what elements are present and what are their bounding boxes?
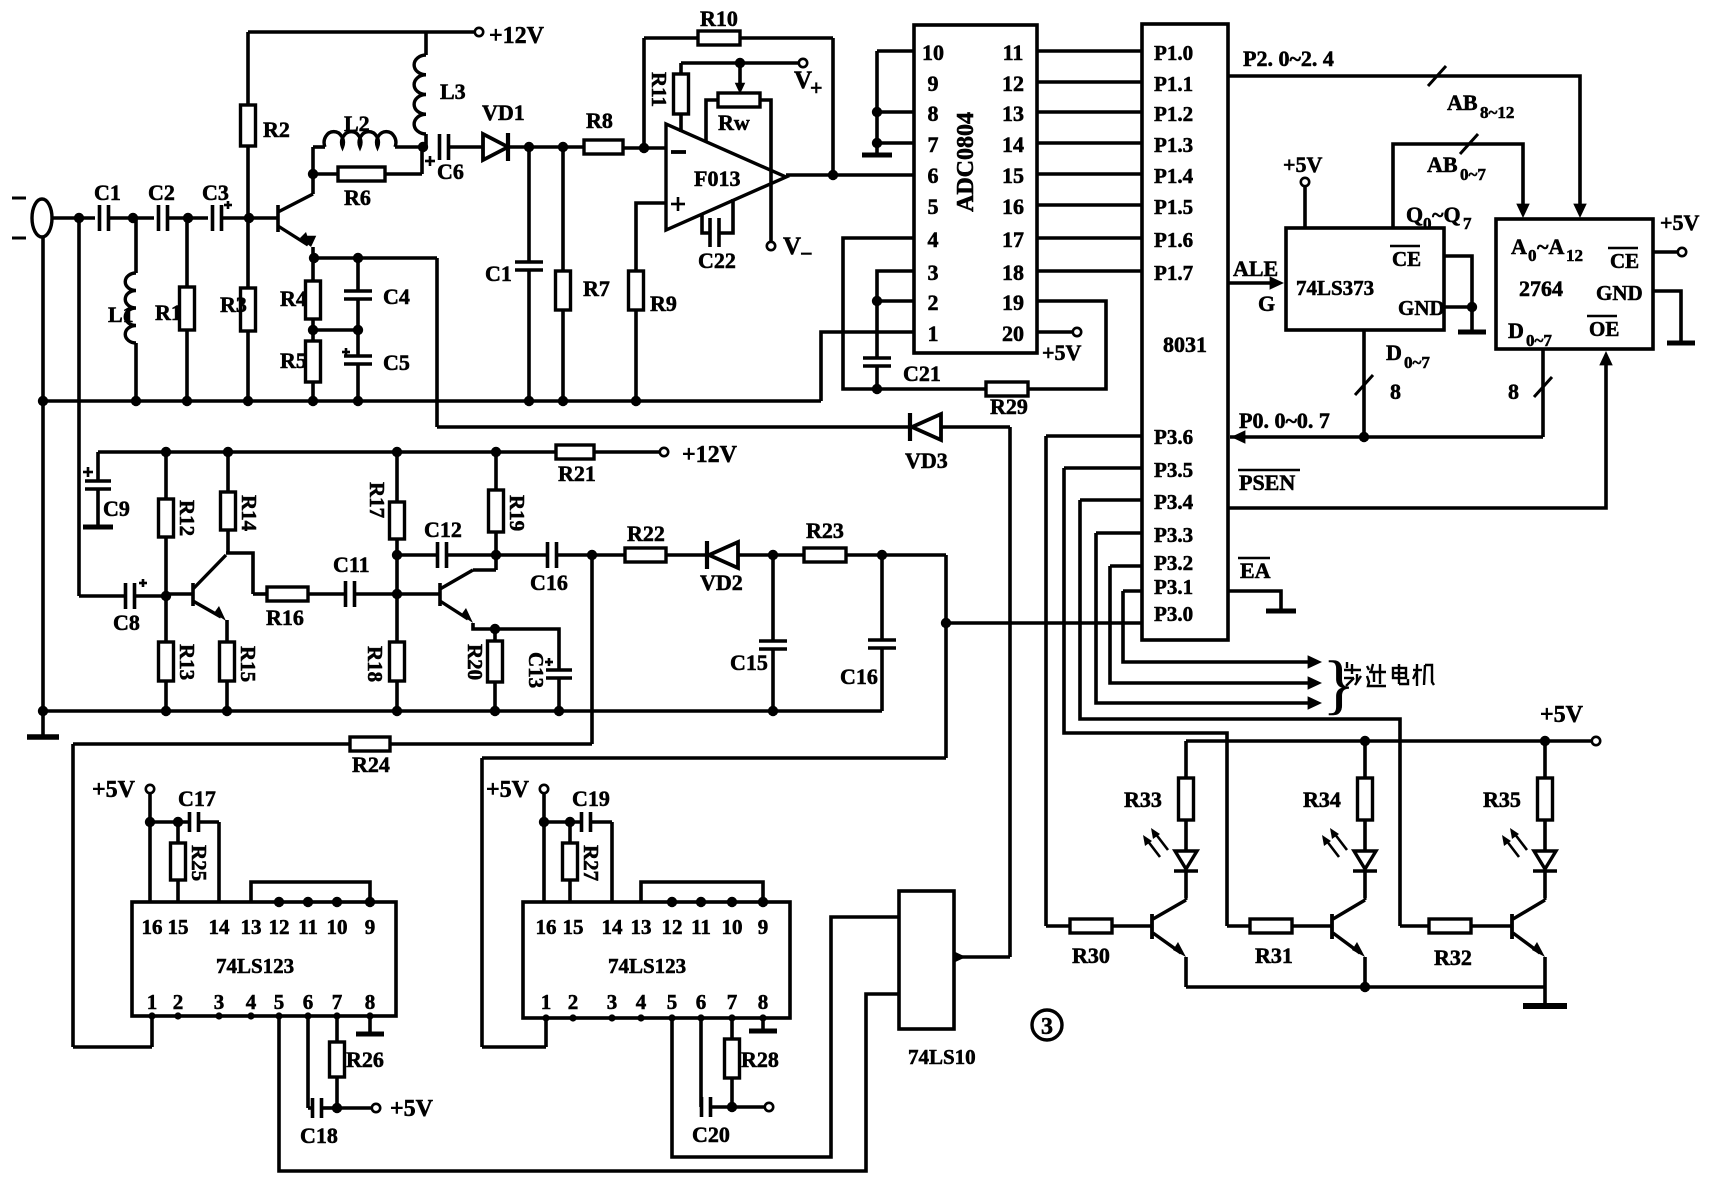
wire P3.2 stub [1110,564,1142,568]
resistor R14 [226,452,230,492]
svg-text:G: G [1258,291,1275,316]
wire P3.4 stub [1080,498,1142,502]
wire PSEN [1228,357,1606,508]
capacitor C8 [79,594,125,598]
svg-text:2: 2 [928,290,939,315]
wire P3.3 to stepper [1096,533,1308,703]
svg-text:R8: R8 [586,108,613,133]
svg-text:R6: R6 [344,185,371,210]
wire VD3 row [437,425,910,429]
capacitor C16a [496,553,547,557]
wire ADC to 8031 P1.7 [1037,269,1142,273]
capacitor C4 [356,258,360,291]
wire 373 D0-7 down [1362,330,1366,437]
slash AB0-7 [1460,134,1478,154]
potentiometer Rw wiper [738,63,742,86]
wire Rw left lead [706,100,718,141]
resistor R23 [804,548,846,562]
IC ADC0804 box [914,25,1037,353]
ground left [41,236,45,736]
capacitor C5 [356,330,360,356]
svg-text:14: 14 [209,915,231,939]
resistor R33 and LED1 [1184,741,1188,778]
wire emitter2 [473,623,495,629]
capacitor C18 [306,1016,310,1108]
123b top bracket [641,882,763,902]
node C21 bottom [872,384,882,394]
node L2/R6 left [308,169,318,179]
svg-text:R7: R7 [583,276,610,301]
svg-text:1: 1 [928,321,939,346]
wire antenna to C1 [52,216,95,220]
svg-text:AB: AB [1427,152,1458,177]
transistor Q6 [1510,914,1514,939]
svg-text:R23: R23 [806,518,844,543]
node R22 left [587,550,597,560]
wire feedback right [831,38,835,175]
svg-text:18: 18 [1002,260,1024,285]
svg-text:OE: OE [1589,317,1619,341]
svg-text:0~7: 0~7 [1404,353,1430,372]
potentiometer Rw [718,93,760,107]
svg-text:P1.1: P1.1 [1154,72,1193,96]
IC 74LS373 box [1286,228,1444,330]
svg-text:C1: C1 [485,261,512,286]
terminal V+ [799,59,807,67]
svg-text:74LS123: 74LS123 [216,954,294,978]
wire C16a to R24 [590,555,594,744]
svg-text:C12: C12 [424,517,462,542]
svg-text:8: 8 [1508,379,1519,404]
ground ADC [862,153,892,158]
diode VD1 [483,134,508,160]
svg-text:L3: L3 [440,79,466,104]
wire P2 bus [1228,76,1580,210]
svg-text:10: 10 [327,915,348,939]
capacitor C15 [771,555,775,641]
svg-text:11: 11 [691,915,711,939]
wire P0 bus [1230,435,1543,439]
wire AB0-7 loop [1393,144,1523,228]
123a top bracket [251,882,370,902]
svg-text:15: 15 [563,915,584,939]
svg-text:C13: C13 [524,652,548,688]
svg-text:R24: R24 [352,752,390,777]
svg-text:7: 7 [1463,214,1472,233]
svg-text:7: 7 [332,990,343,1014]
svg-text:16: 16 [536,915,557,939]
antenna input [32,199,52,237]
wire C2-C3 [168,216,208,220]
svg-text:PSEN: PSEN [1239,470,1295,495]
svg-text:EA: EA [1240,558,1271,583]
wire 123a pin5 to 74LS10 [279,994,899,1171]
svg-text:GND: GND [1596,281,1643,305]
svg-text:4: 4 [246,990,257,1014]
slash D0-7 [1355,375,1373,395]
svg-text:+5V: +5V [486,777,530,803]
123b pin1 loop [482,1045,546,1049]
svg-text:74LS373: 74LS373 [1296,276,1374,300]
node C8 right [161,591,171,601]
wire antenna tap down [77,218,81,596]
svg-text:+5V: +5V [92,777,136,803]
svg-text:R5: R5 [280,348,307,373]
resistor R28 [730,1018,734,1039]
svg-text:5: 5 [928,194,939,219]
resistor R27 [568,822,572,843]
diode VD2 [666,553,707,557]
capacitor C3 [211,205,215,231]
svg-text:4: 4 [928,227,939,252]
IC 74LS123 #2 box [523,902,790,1018]
wire P3.4 path [1080,500,1400,926]
svg-text:P3.0: P3.0 [1154,602,1193,626]
svg-text:~A: ~A [1537,234,1564,259]
svg-text:Q: Q [1406,202,1423,227]
svg-text:C18: C18 [300,1123,338,1148]
svg-text:ADC0804: ADC0804 [953,112,979,212]
resistor R11 [679,63,683,74]
svg-text:12: 12 [1002,71,1024,96]
wire R23 right [846,553,946,557]
resistor R4 [311,258,315,281]
svg-text:6: 6 [303,990,314,1014]
wire R24 left loop [73,742,350,746]
wire 2764 D line [1541,349,1545,437]
svg-text:L1: L1 [108,302,134,327]
svg-text:9: 9 [365,915,376,939]
resistor R30 [1046,924,1070,928]
wire VD1 to R8 [508,145,584,149]
resistor R21 [556,445,594,459]
svg-text:+5V: +5V [1042,340,1082,365]
svg-text:+5V: +5V [390,1096,434,1122]
svg-text:D: D [1386,340,1402,365]
svg-text:VD1: VD1 [482,100,525,125]
svg-text:3: 3 [1041,1014,1053,1040]
resistor R20 [493,629,497,641]
svg-text:+5V: +5V [1283,152,1323,177]
svg-text:74LS123: 74LS123 [608,954,686,978]
wire R21 to +12V [594,450,660,454]
wire C6-VD1 [449,145,483,149]
svg-text:C6: C6 [437,159,464,184]
wire 373 GND right [1444,305,1472,309]
resistor R9 [629,271,644,310]
terminal C20 right [732,1105,765,1109]
resistor R24 [350,737,390,751]
resistor R19 [494,452,498,490]
svg-text:14: 14 [602,915,624,939]
terminal +5V 123a [146,785,154,793]
svg-text:R29: R29 [990,394,1028,419]
svg-text:~Q: ~Q [1432,202,1461,227]
svg-text:15: 15 [1002,163,1024,188]
wire ADC pin4 [843,238,914,389]
svg-text:C5: C5 [383,350,410,375]
node C18 R26 [332,1103,342,1113]
123a bottom edge dots [148,1012,155,1019]
wire 2764 CE +5V [1653,250,1678,254]
resistor R6 [313,172,338,176]
svg-text:+12V: +12V [489,23,545,49]
svg-text:0: 0 [1528,246,1537,265]
svg-text:P1.2: P1.2 [1154,102,1193,126]
svg-text:3: 3 [607,990,618,1014]
svg-text:R28: R28 [741,1047,779,1072]
node C12 row [392,550,402,560]
wire Q2 collector jog [226,553,253,594]
transistor Q1 [276,205,280,232]
svg-text:13: 13 [631,915,652,939]
svg-text:C2: C2 [148,180,175,205]
transistor Q2 [191,583,195,606]
transistor Q4 [1150,914,1154,939]
resistor R17 [395,452,399,502]
svg-text:P1.6: P1.6 [1154,228,1193,252]
wire signal to P3.0 drop [944,555,948,758]
svg-text:CE: CE [1392,247,1421,271]
svg-text:P1.4: P1.4 [1154,164,1194,188]
resistor R22 [592,553,625,557]
svg-text:C1: C1 [94,180,121,205]
svg-text:}: } [1323,648,1355,721]
wire EA ground [1228,591,1281,609]
capacitor C2 [157,205,161,231]
svg-text:+5V: +5V [1660,210,1700,235]
svg-text:R14: R14 [237,495,261,532]
wire +12V top rail [248,30,476,34]
capacitor C16b [880,555,884,640]
wire R8 to opamp [623,146,666,150]
wire 2764 GND gnd [1653,291,1681,341]
wire P3.3 stub [1096,531,1142,535]
wire ADC to 8031 P1.3 [1037,141,1142,145]
resistor R8 [584,140,623,154]
svg-text:V: V [783,233,801,260]
resistor R10 [644,36,698,40]
svg-text:11: 11 [298,915,318,939]
svg-text:C19: C19 [572,786,610,811]
svg-text:C22: C22 [698,248,736,273]
circled 3 [1032,1010,1062,1040]
svg-text:P1.3: P1.3 [1154,133,1193,157]
svg-text:74LS10: 74LS10 [908,1045,976,1069]
wire base1 [166,592,193,596]
svg-text:R30: R30 [1072,943,1110,968]
svg-text:R9: R9 [650,291,677,316]
wire 123b pin5 to 74LS10 [672,917,899,1157]
wire C1-C2 [109,216,154,220]
svg-text:R27: R27 [579,845,603,881]
svg-text:+12V: +12V [682,442,738,468]
node C16a row [491,550,501,560]
svg-text:3: 3 [928,260,939,285]
wire emitter drop [435,258,439,427]
svg-text:AB: AB [1447,90,1478,115]
svg-text:P3.1: P3.1 [1154,575,1193,599]
resistor R15 [225,620,229,642]
svg-text:P3.5: P3.5 [1154,458,1193,482]
svg-text:5: 5 [274,990,285,1014]
svg-text:7: 7 [727,990,738,1014]
wire Q5 emitter [1363,957,1367,987]
resistor R5 [306,341,321,382]
svg-text:C16: C16 [530,570,568,595]
svg-text:R20: R20 [463,644,487,680]
wire ground bus 2 [43,709,882,713]
svg-text:6: 6 [928,163,939,188]
terminal +5V 123b [540,785,548,793]
svg-text:R3: R3 [220,292,247,317]
resistor R7 [561,147,565,271]
74LS10 output [955,952,966,963]
terminal +5V 373 [1301,178,1309,186]
svg-text:2: 2 [568,990,579,1014]
wire opamp + input [636,203,666,271]
svg-text:P1.0: P1.0 [1154,41,1193,65]
svg-text:19: 19 [1002,290,1024,315]
terminal V- [767,242,775,250]
wire R11 top row [681,61,800,65]
terminal +12V mid [660,448,668,456]
svg-text:13: 13 [1002,101,1024,126]
wire VD3 to 74LS10 output [1008,427,1012,957]
op-amp U1 F013 [666,124,786,230]
wire feedback left [642,38,646,148]
transistor Q3 [438,583,442,606]
wire base2 to Q3 [397,592,440,596]
svg-text:16: 16 [1002,194,1024,219]
svg-text:17: 17 [1002,227,1024,252]
svg-text:P2. 0~2. 4: P2. 0~2. 4 [1243,46,1334,71]
svg-text:7: 7 [928,132,939,157]
wire C3 to Q1 base [222,216,278,220]
svg-text:12: 12 [1566,246,1583,265]
wire opamp output [786,173,914,177]
svg-text:5: 5 [667,990,678,1014]
svg-text:F013: F013 [694,166,740,191]
svg-text:CE: CE [1610,249,1639,273]
svg-text:+5V: +5V [1540,702,1584,728]
svg-text:C15: C15 [730,650,768,675]
svg-text:P3.2: P3.2 [1154,551,1193,575]
svg-text:10: 10 [722,915,743,939]
wire ADC pin3 pin2 [877,271,914,358]
wire 373 CE right [1444,256,1472,330]
capacitor C1 [98,205,102,231]
svg-text:P3.3: P3.3 [1154,523,1193,547]
svg-text:R22: R22 [627,521,665,546]
wire emitter rail [1186,985,1545,989]
svg-text:Rw: Rw [718,110,750,135]
capacitor C6 [438,134,442,160]
123b bottom edge dots [542,1014,549,1021]
svg-text:R34: R34 [1303,787,1341,812]
svg-text:VD2: VD2 [700,570,743,595]
wire P3.0 long [946,621,1142,625]
svg-text:+: + [810,75,823,100]
terminal +5V C18 [337,1106,372,1110]
wire R4-C5 row [313,328,358,332]
svg-text:8: 8 [758,990,769,1014]
IC 74LS10 box [899,891,954,1029]
node C6 left [418,142,428,152]
svg-text:2: 2 [173,990,184,1014]
svg-text:R10: R10 [700,6,738,31]
IC 74LS123 #1 box [132,902,396,1016]
diode VD3 [908,413,912,441]
wire +12V rail 2 [98,450,556,454]
resistor R31 [1227,924,1250,928]
capacitor C11 [308,592,345,596]
transistor Q5 [1330,914,1334,939]
resistor R26 [335,1016,339,1042]
inductor L2 [313,145,325,149]
capacitor C17 [150,820,189,824]
svg-text:GND: GND [1398,296,1445,320]
svg-text:9: 9 [928,71,939,96]
svg-text:R12: R12 [175,500,199,536]
svg-text:15: 15 [168,915,189,939]
svg-text:8: 8 [928,101,939,126]
svg-text:12: 12 [662,915,683,939]
svg-text:8: 8 [365,990,376,1014]
resistor R34 and LED2 [1363,741,1367,778]
wire ADC to 8031 P1.2 [1037,110,1142,114]
svg-text:R25: R25 [187,845,211,881]
resistor R13 [164,596,168,642]
svg-text:VD3: VD3 [905,448,948,473]
svg-text:R33: R33 [1124,787,1162,812]
wire R29 row [877,387,986,391]
wire R29 to pin19 [1028,301,1106,389]
svg-text:R35: R35 [1483,787,1521,812]
wire ADC to 8031 P1.5 [1037,203,1142,207]
wire ALE [1228,281,1276,285]
svg-text:0: 0 [1423,214,1432,233]
svg-text:1: 1 [147,990,158,1014]
svg-text:D: D [1508,318,1524,343]
svg-text:L2: L2 [344,111,370,136]
slash P2 bus [1428,66,1446,86]
svg-text:13: 13 [241,915,262,939]
svg-text:R19: R19 [505,495,529,531]
svg-text:R15: R15 [236,646,260,682]
svg-text:R16: R16 [266,605,304,630]
svg-text:R2: R2 [263,117,290,142]
svg-text:12: 12 [269,915,290,939]
svg-text:9: 9 [758,915,769,939]
svg-text:C17: C17 [178,786,216,811]
wire +5V 123b [542,793,546,902]
svg-text:0~7: 0~7 [1526,331,1552,350]
capacitor C13 [495,629,559,670]
svg-text:8~12: 8~12 [1480,103,1514,122]
ground emitter rail [1543,987,1547,1004]
svg-text:R13: R13 [175,644,199,680]
IC 2764 box [1496,219,1653,349]
svg-text:6: 6 [696,990,707,1014]
resistor R2 [246,32,250,105]
wire ADC to 8031 P1.4 [1037,172,1142,176]
wire ADC to 8031 P1.6 [1037,236,1142,240]
svg-text:A: A [1511,234,1527,259]
resistor R1 [185,218,189,287]
wire ADC pin1 [821,332,914,401]
svg-text:C21: C21 [903,361,941,386]
